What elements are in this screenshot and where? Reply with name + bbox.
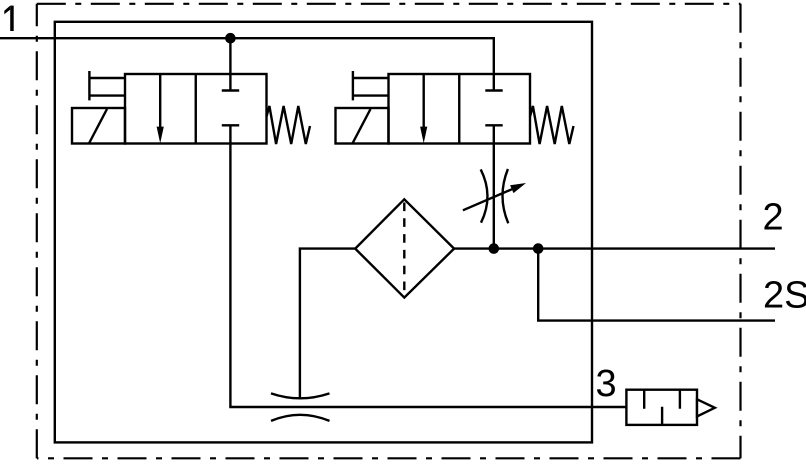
silencer U1 body	[626, 390, 697, 425]
valve V1 body	[125, 74, 267, 144]
valve V1 flow arrow	[159, 74, 161, 128]
manual override V1	[89, 71, 125, 100]
flow control adjustment arrow	[463, 189, 512, 210]
valve V1 top blocked port	[222, 89, 239, 91]
silencer lamellae	[644, 390, 680, 425]
valve V2 flow arrow	[423, 74, 425, 128]
solenoid V2	[336, 108, 389, 144]
valve V2 body	[389, 74, 531, 144]
flow control valve arcs	[481, 169, 488, 222]
valve V2 bottom blocked port	[485, 124, 502, 126]
wire vacuum branch	[300, 249, 355, 399]
svg-text:2S: 2S	[763, 275, 806, 317]
wire valve V1 inlet stem	[229, 38, 231, 90]
filter diamond	[355, 199, 454, 297]
wire port 2S	[538, 249, 775, 321]
manual override V2	[353, 71, 389, 100]
node junction port1	[225, 33, 236, 44]
node junction 2S	[533, 243, 544, 254]
solenoid V1	[72, 108, 125, 144]
wire port 1 supply	[0, 38, 494, 90]
valve V1 divider	[195, 74, 197, 144]
inner assembly box	[55, 22, 592, 443]
valve V2 top blocked port	[485, 89, 502, 91]
spring V1	[267, 106, 311, 144]
wire V2 outlet to node	[493, 125, 495, 248]
svg-text:3: 3	[596, 363, 617, 405]
nozzle arcs	[271, 393, 330, 398]
label port 1	[4, 6, 13, 31]
wire V1 outlet to exhaust run	[230, 125, 626, 407]
valve V1 bottom blocked port	[222, 124, 239, 126]
wire port 2	[454, 247, 775, 249]
silencer outlet triangle	[697, 399, 715, 416]
valve V2 divider	[458, 74, 460, 144]
node junction throttle	[489, 243, 500, 254]
spring V2	[530, 106, 574, 144]
svg-text:2: 2	[763, 197, 784, 239]
